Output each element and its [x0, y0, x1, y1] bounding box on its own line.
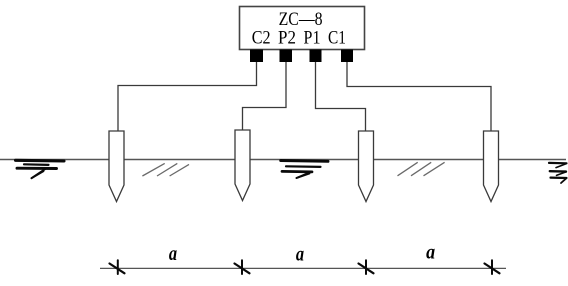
svg-text:P2: P2 [278, 29, 296, 49]
terminal C2 [250, 50, 263, 63]
electrode E1 [109, 131, 124, 202]
dimension tick 4 [485, 260, 500, 274]
instrument box ZC-8 [240, 7, 365, 50]
wire C1 to electrode E4 [347, 62, 491, 131]
svg-text:a: a [169, 241, 177, 265]
soil hatching group 2 [398, 162, 445, 176]
terminal P1 [310, 50, 322, 63]
svg-text:a: a [426, 240, 435, 264]
wire P1 to electrode E3 [316, 62, 366, 131]
ground surface line [0, 159, 566, 161]
dimension line [100, 267, 506, 269]
dimension tick 3 [359, 260, 374, 274]
terminal C1 [341, 50, 353, 63]
wire C2 to electrode E1 [118, 62, 257, 131]
electrode E2 [235, 130, 250, 201]
soil hatching group 1 [142, 163, 189, 176]
svg-text:C2: C2 [252, 29, 271, 49]
electrode E3 [359, 131, 374, 202]
ground-break symbol left [16, 160, 65, 178]
dimension tick 1 [110, 260, 125, 274]
svg-text:a: a [296, 241, 304, 265]
dimension tick 2 [235, 260, 250, 274]
terminal P2 [280, 50, 293, 63]
svg-text:C1: C1 [328, 29, 346, 49]
wire P2 to electrode E2 [243, 62, 287, 131]
svg-text:ZC—8: ZC—8 [279, 10, 323, 30]
electrode E4 [484, 131, 499, 202]
ground-break symbol middle [281, 161, 328, 179]
svg-text:P1: P1 [304, 29, 321, 49]
ground-break symbol right [549, 163, 567, 183]
